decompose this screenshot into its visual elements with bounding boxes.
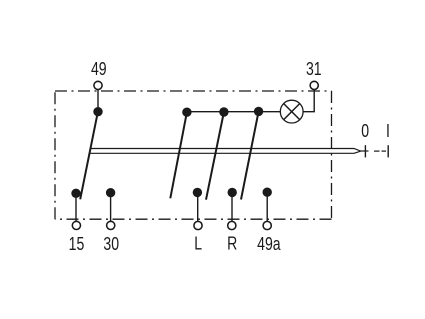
svg-text:49a: 49a (257, 234, 281, 254)
svg-text:L: L (194, 234, 202, 254)
svg-text:I: I (386, 121, 390, 141)
svg-text:31: 31 (306, 59, 322, 79)
svg-text:R: R (227, 234, 237, 254)
svg-text:0: 0 (361, 121, 369, 141)
svg-text:15: 15 (69, 234, 85, 254)
svg-text:30: 30 (103, 234, 119, 254)
svg-text:49: 49 (91, 59, 107, 79)
